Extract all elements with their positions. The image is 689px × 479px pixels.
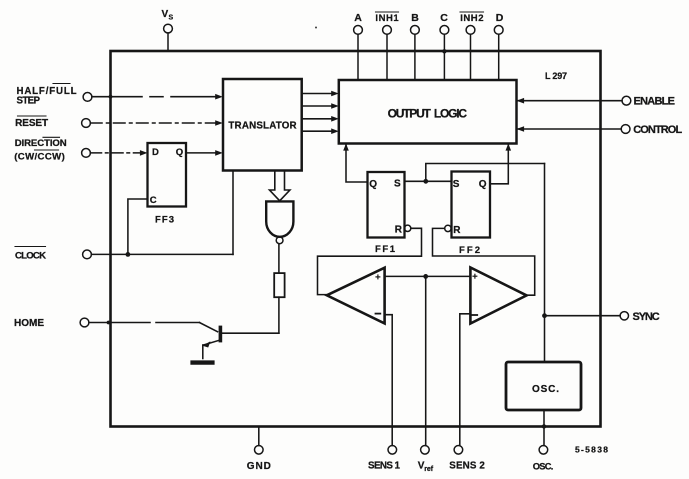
svg-text:Q: Q bbox=[176, 147, 183, 158]
svg-text:ENABLE: ENABLE bbox=[634, 96, 676, 108]
svg-text:CONTROL: CONTROL bbox=[633, 124, 682, 136]
svg-text:R: R bbox=[453, 225, 461, 236]
svg-text:HOME: HOME bbox=[14, 318, 44, 329]
svg-text:OSC.: OSC. bbox=[533, 462, 554, 472]
svg-text:INH2: INH2 bbox=[460, 13, 483, 24]
svg-text:5-5838: 5-5838 bbox=[575, 444, 609, 454]
svg-text:CLOCK: CLOCK bbox=[15, 251, 46, 262]
svg-text:S: S bbox=[169, 15, 174, 22]
svg-text:S: S bbox=[394, 179, 401, 190]
svg-text:C: C bbox=[440, 12, 448, 24]
svg-text:D: D bbox=[152, 147, 159, 158]
svg-text:FF2: FF2 bbox=[459, 245, 480, 256]
svg-text:(CW/CCW): (CW/CCW) bbox=[14, 151, 65, 162]
svg-text:Q: Q bbox=[479, 179, 487, 190]
svg-text:L 297: L 297 bbox=[545, 71, 567, 81]
svg-text:OSC.: OSC. bbox=[532, 384, 559, 395]
svg-text:D: D bbox=[496, 12, 504, 24]
svg-text:C: C bbox=[150, 195, 157, 206]
svg-text:INH1: INH1 bbox=[375, 13, 399, 24]
svg-text:SENS 2: SENS 2 bbox=[449, 460, 485, 471]
svg-text:V: V bbox=[162, 9, 169, 20]
svg-text:TRANSLATOR: TRANSLATOR bbox=[228, 121, 296, 132]
svg-text:S: S bbox=[453, 179, 460, 190]
svg-text:FF1: FF1 bbox=[375, 244, 396, 255]
svg-text:SYNC: SYNC bbox=[633, 311, 660, 323]
svg-text:A: A bbox=[354, 12, 362, 24]
svg-text:R: R bbox=[395, 225, 403, 236]
svg-text:RESET: RESET bbox=[15, 118, 48, 129]
svg-text:STEP: STEP bbox=[17, 96, 41, 107]
svg-text:Q: Q bbox=[369, 179, 377, 190]
svg-text:ref: ref bbox=[424, 466, 434, 473]
svg-text:SENS 1: SENS 1 bbox=[368, 460, 401, 471]
svg-text:FF3: FF3 bbox=[155, 215, 174, 226]
svg-text:DIRECTION: DIRECTION bbox=[15, 138, 67, 149]
svg-text:GND: GND bbox=[247, 461, 271, 472]
svg-text:B: B bbox=[411, 12, 419, 24]
svg-text:OUTPUT LOGIC: OUTPUT LOGIC bbox=[388, 106, 468, 120]
